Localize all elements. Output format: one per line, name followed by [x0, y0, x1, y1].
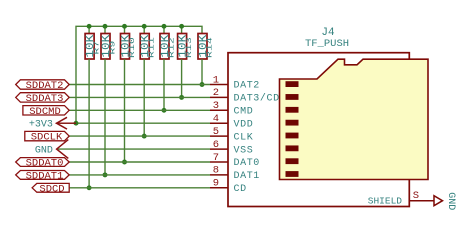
junction R7 bottom [87, 185, 92, 190]
svg-text:8: 8 [213, 165, 219, 177]
global label SDCD [32, 183, 69, 195]
svg-text:SDDAT1: SDDAT1 [26, 171, 64, 183]
junction R13 bottom [179, 95, 184, 100]
global label SDDAT1 [16, 171, 69, 183]
wire +3V3 rail [76, 26, 202, 123]
pin 8 DAT1 [210, 165, 260, 182]
resistor R9 [99, 26, 116, 59]
svg-text:2: 2 [213, 87, 219, 99]
svg-text:R9: R9 [108, 40, 117, 54]
global label SDDAT0 [16, 158, 69, 170]
svg-text:CLK: CLK [234, 132, 254, 143]
pin 3 CMD [210, 100, 253, 117]
svg-text:VSS: VSS [234, 145, 254, 156]
svg-text:GND: GND [445, 192, 456, 210]
wire SDDAT0 net [69, 161, 210, 163]
resistor R10 [119, 26, 136, 59]
wire SDCD net [69, 187, 210, 189]
junction R9 bottom [103, 172, 108, 177]
junction R12 bottom [162, 108, 167, 113]
junction R11 bottom [142, 134, 147, 139]
pin 7 DAT0 [210, 152, 260, 169]
svg-text:SDCLK: SDCLK [31, 132, 63, 144]
junction R10 top [122, 24, 127, 29]
pin 1 DAT2 [210, 74, 260, 91]
wire GND net [58, 148, 210, 150]
junction R14 bottom [200, 82, 205, 87]
resistor R12 [158, 26, 175, 59]
pin 2 DAT3/CD [210, 87, 280, 104]
svg-text:DAT2: DAT2 [234, 81, 260, 92]
svg-text:+3V3: +3V3 [29, 120, 53, 131]
svg-text:SHIELD: SHIELD [368, 196, 403, 207]
svg-text:SDCD: SDCD [39, 183, 64, 195]
svg-text:SDDAT0: SDDAT0 [26, 158, 64, 170]
svg-text:R11: R11 [147, 37, 156, 58]
junction R7 top [87, 24, 92, 29]
power label GND [35, 140, 68, 159]
wire R10 to SDDAT0 net [124, 59, 126, 162]
wire R7 to SDCD net [88, 59, 90, 188]
resistor R7 [83, 26, 100, 59]
svg-text:DAT3/CD: DAT3/CD [234, 93, 280, 105]
svg-text:CMD: CMD [234, 107, 254, 118]
resistor R14 [196, 34, 213, 60]
junction R12 top [162, 24, 167, 29]
junction R13 top [179, 24, 184, 29]
wire SDDAT3 net [69, 96, 210, 98]
pin 5 CLK [210, 126, 253, 143]
power label +3V3 [29, 117, 76, 130]
junction R10 bottom [122, 160, 127, 165]
junction +3V3 feed [74, 121, 79, 126]
svg-text:SDDAT2: SDDAT2 [26, 80, 64, 92]
svg-text:R12: R12 [167, 37, 176, 58]
svg-text:DAT1: DAT1 [234, 171, 260, 182]
svg-text:CD: CD [234, 184, 247, 195]
junction R11 top [142, 24, 147, 29]
wire R14 to SDDAT2 net [201, 59, 203, 85]
SD card contacts [286, 81, 299, 177]
svg-text:VDD: VDD [234, 119, 254, 130]
junction R9 top [103, 24, 108, 29]
pin S SHIELD [368, 190, 434, 207]
SD card symbol [280, 59, 429, 179]
svg-text:R14: R14 [205, 37, 214, 58]
pin 6 VSS [210, 139, 253, 156]
svg-text:6: 6 [213, 139, 219, 151]
connector J4 box [228, 53, 409, 207]
svg-text:3: 3 [213, 100, 219, 112]
svg-text:DAT0: DAT0 [234, 158, 260, 169]
global label SDDAT3 [16, 93, 69, 105]
ground symbol GND [434, 192, 456, 210]
svg-text:4: 4 [213, 113, 219, 125]
svg-text:7: 7 [213, 152, 219, 164]
svg-text:TF_PUSH: TF_PUSH [305, 38, 349, 50]
pin 9 CD [210, 178, 247, 195]
wire R12 to SDCMD net [163, 59, 165, 110]
svg-text:SDDAT3: SDDAT3 [26, 93, 64, 105]
svg-text:R13: R13 [185, 37, 194, 58]
wire SDDAT2 net [69, 84, 210, 86]
svg-text:S: S [413, 190, 419, 202]
wire R13 to SDDAT3 net [181, 59, 183, 97]
resistor R11 [138, 26, 155, 59]
wire +3V3 net [60, 122, 210, 124]
global label SDCMD [23, 106, 69, 118]
global label SDCLK [25, 131, 69, 143]
global label SDDAT2 [16, 80, 69, 92]
svg-text:R10: R10 [128, 37, 137, 58]
wire SDDAT1 net [69, 174, 210, 176]
resistor R13 [176, 26, 193, 59]
svg-text:9: 9 [213, 178, 219, 190]
pin 4 VDD [210, 113, 253, 130]
svg-text:SDCMD: SDCMD [29, 106, 61, 118]
svg-text:GND: GND [35, 146, 53, 157]
svg-text:5: 5 [213, 126, 219, 138]
wire SDCLK net [69, 135, 210, 137]
wire SDCMD net [69, 109, 210, 111]
svg-text:1: 1 [213, 74, 219, 86]
wire R11 to SDCLK net [143, 59, 145, 136]
wire R9 to SDDAT1 net [104, 59, 106, 175]
